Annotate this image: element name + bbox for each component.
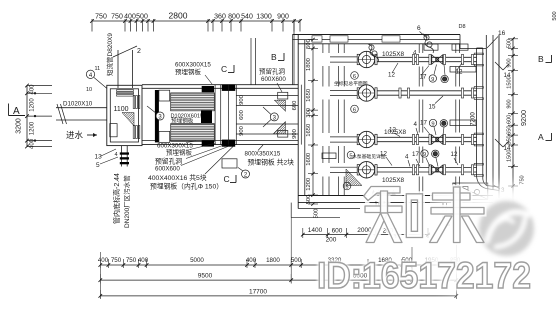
- svg-text:预留孔洞: 预留孔洞: [259, 67, 286, 76]
- equipment pads bottom right: [453, 183, 488, 199]
- svg-text:预埋钢板 共2块: 预埋钢板 共2块: [248, 158, 295, 167]
- svg-text:1200: 1200: [30, 121, 36, 135]
- svg-text:11: 11: [95, 66, 101, 72]
- svg-text:D1020X10: D1020X10: [63, 101, 93, 108]
- flexible joint symbol 2: [423, 34, 434, 53]
- svg-text:A: A: [538, 132, 544, 142]
- drain stub pipe below chamber: [120, 146, 129, 167]
- svg-text:800: 800: [228, 14, 240, 21]
- svg-text:15: 15: [429, 104, 436, 111]
- extension line 6000: [411, 247, 413, 283]
- main chamber outer walls: [293, 21, 500, 209]
- butterfly valve row 3: [429, 135, 446, 145]
- svg-text:500: 500: [507, 39, 513, 48]
- svg-text:400: 400: [30, 84, 36, 95]
- header tee flanges row 2: [474, 87, 483, 100]
- callout 2 bubble: [238, 168, 250, 179]
- svg-text:400X400X16 共5块: 400X400X16 共5块: [148, 173, 207, 182]
- svg-text:600: 600: [332, 228, 343, 235]
- butterfly valve row 4: [429, 165, 446, 175]
- serrated strip: [371, 190, 396, 196]
- svg-text:900: 900: [507, 58, 513, 67]
- flanges row 2: [399, 88, 474, 98]
- svg-text:10: 10: [86, 87, 92, 93]
- extension line mid: [290, 218, 292, 283]
- svg-text:1200: 1200: [30, 98, 36, 112]
- header pipe vertical: [477, 48, 500, 191]
- svg-text:4: 4: [413, 50, 417, 57]
- svg-text:9: 9: [423, 152, 426, 158]
- pipe gallery walls: [142, 85, 298, 145]
- svg-text:360: 360: [214, 14, 226, 21]
- svg-text:1400: 1400: [308, 227, 323, 234]
- anchor mark 14 upper: [495, 62, 511, 79]
- watermark character MO: [430, 187, 485, 243]
- svg-text:750: 750: [520, 175, 526, 184]
- section mark B right: [538, 54, 552, 64]
- pump unit row 4 suction stub: [330, 167, 358, 172]
- svg-text:400: 400: [138, 257, 149, 264]
- labels row 3: [384, 119, 447, 136]
- svg-text:900: 900: [277, 14, 289, 21]
- pipe run row 1 D1025X8: [377, 57, 476, 61]
- svg-text:1025X8: 1025X8: [382, 51, 404, 58]
- svg-text:17: 17: [420, 74, 427, 81]
- svg-text:B: B: [271, 52, 277, 62]
- svg-text:C: C: [221, 64, 227, 74]
- callout 3 bubble gallery: [263, 107, 278, 127]
- svg-text:12: 12: [451, 151, 458, 158]
- svg-text:750: 750: [111, 14, 123, 21]
- label 6 top: [417, 25, 427, 38]
- inlet chamber wall flange cluster upper: [133, 96, 140, 109]
- svg-text:900: 900: [239, 95, 245, 105]
- flanges row 4: [412, 165, 473, 175]
- text reserved hole 600X600 (below): [155, 157, 182, 173]
- inlet pipe D1020X10 with flow arrow: [56, 101, 107, 141]
- watermark logo circle: [479, 201, 534, 256]
- pump number bubbles: [343, 72, 358, 191]
- callout 4 and 11,10 labels: [86, 66, 107, 93]
- svg-text:9: 9: [431, 121, 434, 127]
- corridor dims 900 600 900: [239, 95, 245, 136]
- svg-text:4: 4: [115, 152, 118, 158]
- svg-text:B: B: [538, 54, 544, 64]
- svg-text:300: 300: [306, 108, 312, 118]
- callout 3 bubble on bar: [147, 106, 164, 120]
- svg-text:13: 13: [95, 154, 103, 161]
- svg-text:1500: 1500: [507, 149, 513, 161]
- encased pipe striped block upper: [171, 93, 215, 111]
- svg-text:600: 600: [292, 101, 298, 111]
- svg-text:600X600: 600X600: [261, 76, 286, 83]
- svg-text:500: 500: [306, 195, 312, 205]
- text 600X300X15 plate (below): [157, 143, 193, 157]
- bottom dimension chain 17700: [99, 289, 459, 300]
- svg-text:800X350X15: 800X350X15: [245, 151, 281, 158]
- drain pipe below chamber: [440, 203, 451, 225]
- svg-text:1500: 1500: [507, 76, 513, 88]
- svg-text:2: 2: [137, 48, 141, 55]
- label 15 row 2: [429, 96, 444, 111]
- svg-text:12: 12: [456, 69, 463, 76]
- svg-text:管内底标高-2.44: 管内底标高-2.44: [112, 173, 121, 224]
- leader lines from notes: [181, 141, 263, 174]
- svg-text:400: 400: [30, 138, 36, 149]
- pipe label band D1020: [171, 114, 204, 125]
- pump unit row 2 suction stub: [330, 90, 358, 95]
- svg-text:1025X8: 1025X8: [382, 177, 404, 184]
- svg-text:4: 4: [405, 154, 409, 161]
- encased pipe striped block lower: [171, 124, 215, 142]
- watermark character ZHI: [364, 187, 423, 243]
- svg-text:900: 900: [239, 126, 245, 136]
- label 16 top right: [487, 30, 506, 48]
- inlet chamber wall flange cluster lower: [133, 126, 140, 139]
- svg-text:17700: 17700: [249, 289, 267, 296]
- pipe run row 2 D1025X8: [377, 91, 476, 95]
- small box and section mark C below: [222, 159, 237, 184]
- svg-text:预埋钢板: 预埋钢板: [171, 117, 194, 125]
- svg-text:500: 500: [552, 11, 558, 20]
- chamber left dimension chain: [306, 38, 318, 206]
- gallery black wall plate vertical bar: [155, 90, 170, 142]
- section mark A right: [538, 132, 552, 142]
- svg-text:1200: 1200: [306, 178, 312, 191]
- embedded plate black bands: [201, 84, 235, 146]
- svg-text:12: 12: [389, 127, 396, 134]
- svg-text:16: 16: [498, 30, 506, 37]
- labels 13 and 5 with leaders: [95, 149, 119, 169]
- svg-text:1300: 1300: [256, 14, 272, 21]
- svg-text:D8: D8: [459, 24, 466, 30]
- svg-text:1650: 1650: [306, 124, 312, 137]
- svg-text:预留孔洞: 预留孔洞: [155, 157, 182, 166]
- labels row 1: [382, 50, 463, 83]
- svg-text:3200: 3200: [16, 118, 23, 134]
- pump unit row 3 suction stub: [330, 137, 358, 142]
- svg-text:预埋钢板: 预埋钢板: [175, 67, 202, 76]
- svg-text:9: 9: [431, 77, 434, 83]
- corner hatched wedge: [346, 169, 362, 186]
- svg-text:6: 6: [417, 25, 421, 32]
- mid dimension chain 1400/600/2000: [291, 203, 430, 244]
- svg-text:600: 600: [239, 110, 245, 120]
- svg-text:预埋钢板（内孔Φ 150）: 预埋钢板（内孔Φ 150）: [150, 181, 223, 190]
- svg-text:400: 400: [246, 257, 257, 264]
- svg-text:17: 17: [420, 120, 427, 127]
- svg-text:7200: 7200: [470, 112, 477, 126]
- anchor mark 14 lower: [495, 139, 511, 152]
- text 600X300X15 embedded plate (top): [175, 62, 212, 85]
- butterfly valve row 1: [429, 55, 446, 65]
- svg-text:5: 5: [349, 153, 352, 159]
- inflow standpipe D820X9: [105, 33, 141, 88]
- gallery corridor walls: [215, 85, 236, 145]
- svg-text:850: 850: [507, 135, 513, 144]
- svg-text:600: 600: [507, 115, 513, 124]
- svg-text:400: 400: [98, 257, 109, 264]
- section mark C1 top: [221, 64, 234, 74]
- svg-text:200: 200: [326, 237, 337, 244]
- svg-text:600X300X15: 600X300X15: [175, 62, 211, 69]
- svg-text:600X600: 600X600: [155, 166, 180, 173]
- pump 4 flanged elbow: [357, 162, 377, 178]
- svg-text:9200: 9200: [519, 110, 528, 126]
- text 800X350X15 2 pcs: [245, 151, 295, 167]
- header tee flanges row 1: [474, 53, 483, 66]
- svg-text:750: 750: [126, 257, 137, 264]
- pump 3 flanged elbow: [357, 131, 377, 147]
- inlet chamber top flanges: [117, 90, 134, 96]
- svg-text:12: 12: [380, 151, 387, 158]
- extension line left: [99, 252, 101, 298]
- bottom dimension chain detail: [98, 257, 461, 268]
- pump 1 flanged elbow: [357, 51, 377, 67]
- inlet chamber hatched wedge: [122, 113, 134, 127]
- flanges row 1: [412, 55, 473, 65]
- svg-text:预埋钢板: 预埋钢板: [166, 148, 193, 157]
- svg-text:5000: 5000: [190, 257, 204, 264]
- flexible joint symbol 1: [368, 44, 379, 62]
- svg-text:2800: 2800: [169, 11, 188, 21]
- svg-text:17: 17: [412, 151, 419, 158]
- pipe run row 3 D1025X8: [377, 137, 476, 141]
- svg-text:900: 900: [507, 99, 513, 108]
- bottom dimension chain 9500/6000: [99, 273, 459, 284]
- wall sleeve lower: [236, 121, 298, 138]
- chamber pier walls: [419, 44, 459, 196]
- header tee flanges row 3: [474, 133, 483, 146]
- svg-text:600X300X15: 600X300X15: [157, 143, 193, 150]
- svg-text:500: 500: [306, 39, 312, 49]
- svg-text:750: 750: [95, 14, 107, 21]
- inlet chamber sump box: [110, 124, 117, 137]
- svg-text:短流管D820X9: 短流管D820X9: [105, 33, 114, 76]
- section mark B gallery: [271, 52, 284, 62]
- section mark A (left): [9, 104, 26, 134]
- flanges row 3: [412, 135, 473, 145]
- svg-text:1600: 1600: [306, 153, 312, 166]
- svg-text:1650: 1650: [306, 89, 312, 102]
- extension line right: [455, 240, 457, 298]
- svg-text:500: 500: [291, 257, 302, 264]
- svg-text:6: 6: [353, 107, 356, 113]
- svg-text:12: 12: [388, 72, 395, 79]
- svg-text:1100: 1100: [114, 106, 129, 113]
- svg-text:进水: 进水: [66, 130, 84, 140]
- top dimension chain: [90, 11, 302, 32]
- svg-text:9500: 9500: [198, 273, 213, 280]
- section line above gallery: [251, 38, 256, 85]
- svg-text:5: 5: [96, 162, 100, 169]
- svg-text:1800: 1800: [306, 58, 312, 71]
- svg-text:6: 6: [353, 74, 356, 80]
- right dimension chain 9200: [507, 37, 529, 206]
- svg-text:DN200厂区污水管: DN200厂区污水管: [122, 175, 131, 228]
- svg-text:4: 4: [414, 121, 418, 128]
- wall niches: [322, 44, 476, 159]
- svg-text:500: 500: [136, 14, 148, 21]
- svg-text:C: C: [224, 174, 230, 184]
- svg-text:650: 650: [507, 126, 513, 135]
- svg-text:1800: 1800: [266, 257, 280, 264]
- svg-text:750: 750: [111, 257, 122, 264]
- svg-text:540: 540: [241, 14, 253, 21]
- labels row 4: [380, 150, 458, 184]
- left dimension chain 3200: [25, 84, 52, 149]
- pipe run row 4 D1025X8: [377, 168, 476, 172]
- svg-text:900: 900: [292, 129, 298, 139]
- header tee flanges row 4: [474, 163, 483, 176]
- top wall niches: [312, 36, 400, 42]
- watermark white glow: [419, 186, 560, 300]
- pump unit row 1 suction stub: [330, 57, 358, 62]
- text 400X400X16 5 pcs: [148, 173, 223, 190]
- svg-text:400: 400: [124, 14, 136, 21]
- watermark ID text: [317, 255, 531, 296]
- chamber suction channel walls: [323, 44, 344, 196]
- svg-text:500: 500: [314, 209, 320, 219]
- wall sleeve upper: [236, 92, 298, 111]
- label 3 bottom right: [494, 185, 506, 194]
- svg-text:ID:165172172: ID:165172172: [317, 255, 531, 296]
- text reserved hole 600X600 (top): [259, 67, 286, 93]
- inlet valve chamber: [107, 85, 142, 145]
- pump 2 flanged elbow: [357, 85, 377, 101]
